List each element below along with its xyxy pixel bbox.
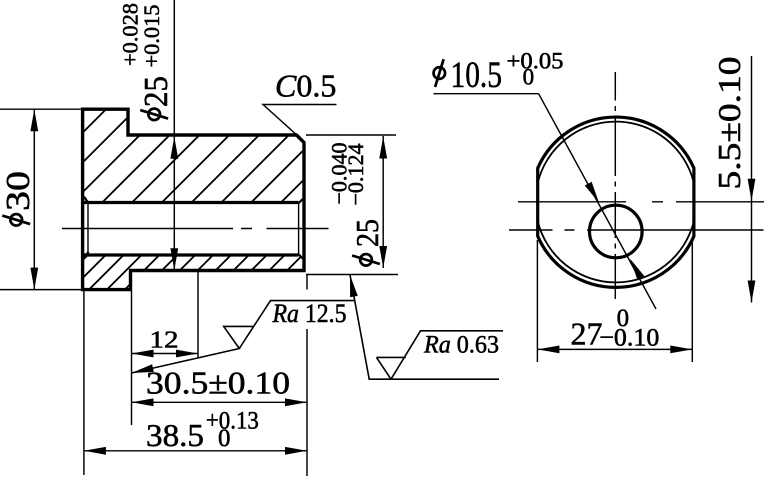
svg-text:C0.5: C0.5 xyxy=(275,68,336,104)
svg-text:Ra 0.63: Ra 0.63 xyxy=(423,332,499,359)
bore top edge xyxy=(84,201,298,204)
svg-text:+0.015: +0.015 xyxy=(139,5,164,68)
dimension phi30: text xyxy=(0,171,37,226)
svg-text:+0.13: +0.13 xyxy=(206,408,259,435)
end view outer profile with flats xyxy=(538,117,694,287)
svg-text:30: 30 xyxy=(0,171,37,211)
bore right chamfer edge line xyxy=(298,203,300,254)
end view horizontal centerline (part axis) xyxy=(518,201,764,203)
dimension phi10.5 text xyxy=(434,55,502,96)
svg-text:27: 27 xyxy=(571,316,603,352)
svg-text:+0.05: +0.05 xyxy=(507,49,564,74)
svg-text:12: 12 xyxy=(150,328,179,354)
svg-text:−0.124: −0.124 xyxy=(343,144,368,206)
bore left chamfer edge line xyxy=(87,203,89,252)
dimension 5.5: dimension line xyxy=(751,56,753,303)
dimension 30.5: dimension line xyxy=(132,401,308,403)
dimension phi25 -0.040/-0.124: text xyxy=(349,219,385,266)
bore right chamfer bottom xyxy=(298,254,304,260)
dimension phi10.5 leader shelf xyxy=(434,93,539,95)
section view part outline xyxy=(83,109,304,289)
end view vertical centerline xyxy=(614,72,616,299)
hatching lower region xyxy=(51,250,326,292)
svg-text:10.5: 10.5 xyxy=(451,55,503,96)
dimension phi30: dimension line xyxy=(33,109,35,289)
svg-text:38.5: 38.5 xyxy=(146,417,204,453)
svg-text:0: 0 xyxy=(218,425,231,452)
hole phi10.5 xyxy=(590,205,643,258)
bore left chamfer top xyxy=(84,197,89,204)
svg-text:0: 0 xyxy=(617,305,630,332)
dimension 12: dimension line xyxy=(132,353,199,355)
dimension phi25 -0.040/-0.124: dimension line xyxy=(382,136,384,268)
svg-text:Ra 12.5: Ra 12.5 xyxy=(272,299,347,328)
dimension 12: extension line right xyxy=(197,272,199,358)
chamfer label C0.5 leader xyxy=(263,105,337,138)
svg-text:0: 0 xyxy=(523,65,535,90)
extension line left (38.5) xyxy=(83,291,85,475)
extension line right (30.5 / 38.5) xyxy=(306,275,308,476)
end view chamfer circle xyxy=(538,122,694,283)
hatching upper region xyxy=(0,105,408,206)
roughness Ra 12.5 symbol xyxy=(132,301,356,373)
extension line flange face (12 / 30.5) xyxy=(131,291,133,425)
bore bottom edge xyxy=(84,253,298,256)
svg-text:30.5±0.10: 30.5±0.10 xyxy=(146,365,290,401)
dimension 38.5: dimension line xyxy=(84,450,307,452)
dimension 27: dimension line xyxy=(537,348,692,350)
dimension phi25 +0.028/+0.015: extension/dimension line xyxy=(173,0,175,270)
svg-text:5.5±0.10: 5.5±0.10 xyxy=(711,57,747,190)
bore left chamfer bottom xyxy=(84,252,89,259)
dimension phi25 +0.028/+0.015: text xyxy=(138,76,175,120)
dimension phi25 -0.040/-0.124: extension lines xyxy=(306,134,396,136)
dimension phi30: extension lines xyxy=(0,108,81,110)
svg-text:25: 25 xyxy=(138,76,175,107)
roughness Ra 0.63 symbol xyxy=(350,275,503,379)
dimension 27: extension lines xyxy=(536,240,538,362)
bore right chamfer top xyxy=(298,198,304,204)
dimension phi10.5 leader diagonal xyxy=(539,94,656,309)
svg-text:−0.10: −0.10 xyxy=(599,325,659,352)
centerline of bore (section view) xyxy=(62,228,329,230)
svg-text:25: 25 xyxy=(349,219,385,247)
hole horizontal centerline xyxy=(509,229,764,231)
